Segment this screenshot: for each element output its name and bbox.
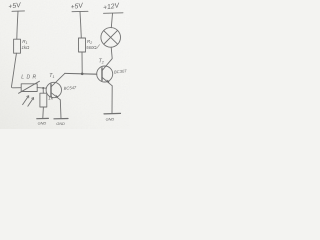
- svg-text:560Ω: 560Ω: [86, 45, 97, 50]
- svg-text:GND: GND: [38, 121, 47, 126]
- svg-text:GND: GND: [106, 116, 115, 121]
- svg-text:BC547: BC547: [64, 85, 78, 91]
- svg-text:LDR: LDR: [21, 74, 38, 80]
- svg-text:1kΩ: 1kΩ: [22, 45, 31, 50]
- svg-text:1k: 1k: [48, 96, 54, 101]
- svg-text:GND: GND: [56, 121, 65, 126]
